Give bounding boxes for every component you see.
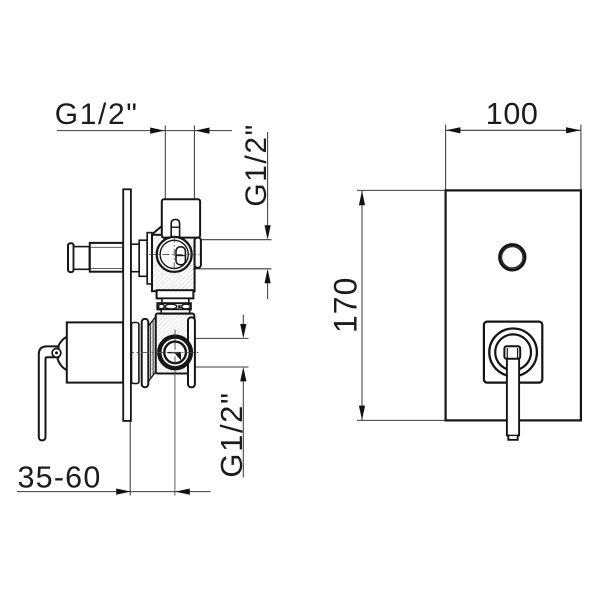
svg-text:G1/2": G1/2" [55, 98, 139, 131]
svg-text:35-60: 35-60 [18, 460, 102, 494]
svg-text:G1/2": G1/2" [214, 391, 249, 477]
svg-text:170: 170 [328, 277, 364, 333]
svg-text:G1/2": G1/2" [240, 123, 273, 207]
svg-text:100: 100 [486, 97, 539, 131]
